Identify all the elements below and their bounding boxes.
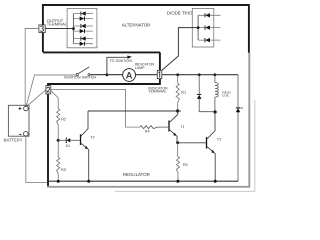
- svg-text:D3: D3: [239, 106, 243, 110]
- trio diode row 1: [198, 13, 220, 17]
- node: ignition junction: [106, 73, 109, 76]
- wire: no.2 terminal to R4 (T1 base): [51, 89, 140, 127]
- svg-text:T3: T3: [217, 138, 221, 142]
- svg-text:LAMP: LAMP: [135, 66, 145, 70]
- svg-text:BATTERY: BATTERY: [4, 137, 23, 142]
- svg-text:IGNITION SWITCH: IGNITION SWITCH: [64, 76, 96, 80]
- diode D2 (field flyback): [199, 75, 213, 112]
- diode trio bus: [197, 15, 199, 40]
- svg-text:TERMINAL: TERMINAL: [148, 90, 166, 94]
- wire: switch to lamp: [90, 74, 123, 76]
- regulator box (top + terminal-1 stub + left, dark): [48, 52, 161, 186]
- ignition switch: [76, 67, 90, 76]
- transistor T2: [80, 134, 82, 145]
- node: rectifier output junction: [72, 27, 75, 30]
- transistor T3: [206, 137, 208, 149]
- node: diode trio junction: [197, 26, 200, 29]
- trio diode row 2: [198, 25, 220, 29]
- rectifier diode row 1: [73, 11, 93, 15]
- svg-text:TERMINAL: TERMINAL: [47, 21, 68, 26]
- rectifier diode row 3: [73, 24, 93, 28]
- svg-text:D1: D1: [66, 144, 71, 148]
- zener diode D1: [58, 139, 66, 141]
- svg-text:REGULATOR: REGULATOR: [123, 172, 150, 177]
- svg-text:TO IGNITION: TO IGNITION: [110, 59, 133, 63]
- indicator lamp: [123, 69, 136, 82]
- ground bus: [48, 180, 238, 182]
- rectifier diode row 4: [73, 29, 93, 33]
- node: T1 collector / R1 bottom: [176, 109, 179, 112]
- node: R1 top: [176, 73, 179, 76]
- resistor R1: [176, 75, 179, 111]
- node: T2 emitter ground: [87, 180, 90, 183]
- transistor T1: [168, 121, 170, 132]
- resistor R2: [57, 107, 60, 140]
- svg-text:R1: R1: [181, 91, 186, 95]
- rectifier diode row 2: [73, 16, 93, 20]
- wire: T1 emitter node to T3 base: [178, 142, 206, 144]
- rectifier box: [67, 9, 97, 48]
- node: T3 emitter ground: [214, 180, 217, 183]
- resistor R3: [57, 140, 60, 181]
- wire: no.2 terminal to R2: [51, 91, 58, 107]
- svg-text:R5: R5: [183, 163, 188, 167]
- node: R5 ground: [176, 180, 179, 183]
- node: D2 top: [198, 73, 201, 76]
- node: T1 emitter / T3 base: [176, 141, 179, 144]
- wire: battery plus to no.2 terminal: [26, 90, 46, 107]
- rectifier diode row 5: [73, 36, 93, 40]
- svg-text:COIL: COIL: [222, 94, 230, 98]
- wire: output terminal to battery plus: [25, 29, 39, 107]
- svg-text:R4: R4: [145, 129, 150, 133]
- regulator box (bottom + right, gray): [47, 53, 249, 188]
- wire: to-ignition branch: [107, 57, 128, 75]
- no.2 terminal symbol: [46, 86, 51, 94]
- wire: lamp to indicator terminal: [136, 74, 158, 76]
- diode D3 (right suppression): [237, 75, 239, 181]
- wire: battery minus to regulator case: [26, 136, 47, 183]
- svg-text:R2: R2: [61, 117, 66, 121]
- svg-text:R3: R3: [61, 168, 66, 172]
- wire: indicator terminal to field node: [162, 74, 238, 76]
- node: field coil top: [214, 73, 217, 76]
- wire: diode trio to indicator terminal: [160, 28, 198, 72]
- arrow: to ignition: [127, 56, 132, 59]
- node: R2/R3/D1 junction: [57, 139, 60, 142]
- resistor R5: [176, 143, 179, 181]
- node: field coil bottom: [214, 110, 217, 113]
- indicator terminal symbol (1): [157, 70, 162, 78]
- trio diode row 3: [198, 38, 220, 42]
- wire: battery plus to ignition switch: [26, 75, 76, 106]
- svg-text:T2: T2: [90, 135, 94, 139]
- output terminal symbol: [39, 25, 45, 33]
- node: R3 ground: [57, 180, 60, 183]
- resistor R4: [140, 126, 168, 129]
- diode trio box: [192, 8, 214, 47]
- rectifier bus: [72, 14, 74, 44]
- svg-text:ALTERNATOR: ALTERNATOR: [122, 22, 151, 27]
- battery: [8, 105, 29, 136]
- alternator box: [43, 5, 249, 53]
- svg-text:T1: T1: [180, 125, 184, 129]
- svg-text:A: A: [126, 70, 133, 80]
- wire: output terminal to rectifier bus: [45, 28, 73, 30]
- wire: T2 collector to T1 node: [88, 110, 178, 112]
- svg-text:DIODE TRIO: DIODE TRIO: [167, 11, 193, 16]
- rectifier diode row 6: [73, 42, 93, 46]
- field coil: [214, 75, 216, 83]
